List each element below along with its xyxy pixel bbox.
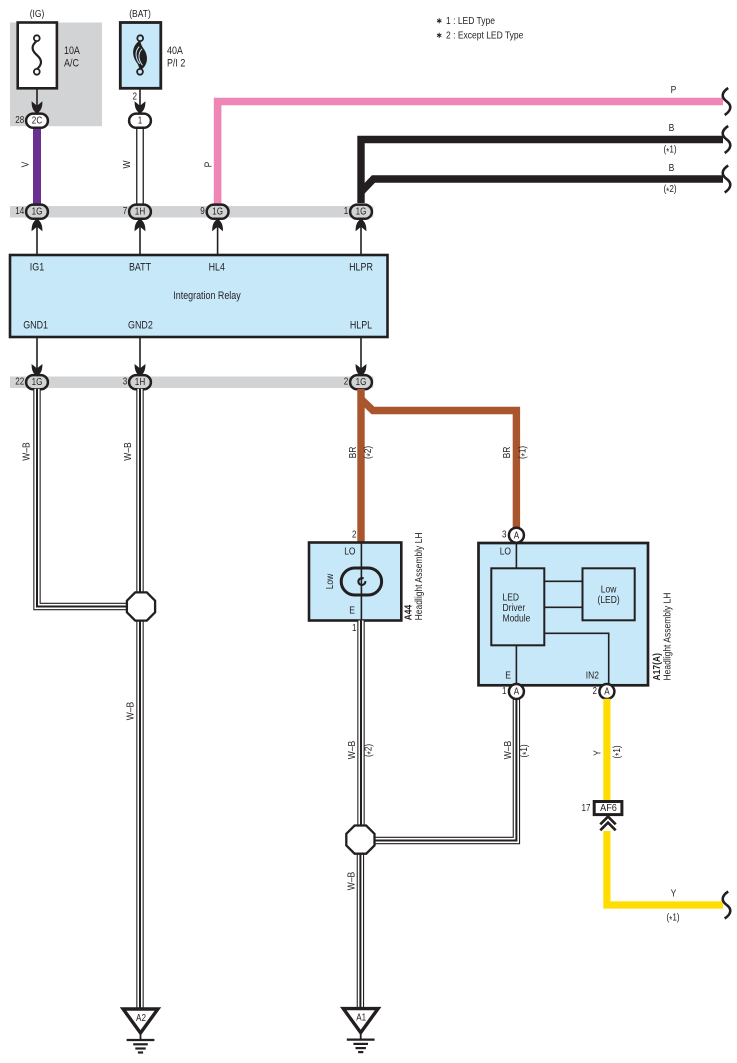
svg-text:W–B: W–B (502, 741, 514, 759)
svg-text:HLPL: HLPL (350, 320, 372, 332)
connector 9 1G (207, 205, 229, 219)
break squiggle B1 (723, 126, 731, 153)
svg-text:Low: Low (324, 573, 336, 589)
svg-text:HLPR: HLPR (349, 262, 373, 274)
svg-text:Module: Module (503, 613, 531, 625)
svg-text:W: W (121, 160, 133, 168)
lead from IG fuse (36, 88, 38, 113)
svg-text:A1: A1 (356, 1013, 366, 1024)
svg-text:Headlight Assembly LH: Headlight Assembly LH (413, 533, 425, 621)
break squiggle pink (723, 88, 731, 115)
svg-text:Headlight Assembly LH: Headlight Assembly LH (662, 593, 674, 681)
svg-text:14: 14 (15, 206, 24, 217)
svg-text:(IG): (IG) (30, 8, 45, 20)
svg-text:2: 2 (133, 92, 138, 103)
Low (LED) box (583, 568, 635, 620)
wire W-B *2: A44 pin1 down to splice J2 (357, 621, 364, 826)
svg-text:Y: Y (591, 750, 603, 756)
svg-text:P/I 2: P/I 2 (167, 57, 185, 69)
gray block behind IG fuse (10, 23, 102, 127)
arrows down into bottom bus (32, 364, 43, 376)
svg-text:40A: 40A (167, 45, 183, 57)
pin 1 connector A (509, 684, 524, 699)
LED Driver Module box (491, 568, 544, 645)
break squiggle B2 (723, 166, 731, 193)
svg-text:2 : Except LED Type: 2 : Except LED Type (446, 29, 524, 41)
svg-text:3: 3 (123, 377, 128, 388)
svg-text:V: V (20, 162, 32, 168)
legend note 1 : LED Type (437, 18, 441, 23)
wire Y: A17 pin2 down to AF6 (603, 699, 610, 802)
wire B (*1) black horizontal (361, 140, 723, 204)
pin 2 connector A (599, 684, 614, 699)
svg-text:1 : LED Type: 1 : LED Type (446, 15, 495, 27)
bulb Low (341, 568, 381, 595)
svg-text:LO: LO (500, 546, 511, 558)
svg-text:22: 22 (15, 377, 24, 388)
svg-text:1: 1 (502, 686, 507, 697)
leads relay to top bus (36, 220, 38, 256)
svg-text:10A: 10A (64, 45, 80, 57)
svg-text:Y: Y (671, 888, 677, 900)
splice octagon J2 (346, 826, 374, 854)
svg-text:17: 17 (582, 803, 591, 814)
svg-text:1G: 1G (32, 377, 43, 388)
wire W-B left: 22 1G down and right to splice (37, 389, 128, 607)
bottom bus band (10, 377, 373, 389)
svg-text:1H: 1H (135, 377, 145, 388)
svg-text:LO: LO (344, 546, 355, 558)
svg-text:E: E (349, 604, 355, 616)
svg-text:1: 1 (344, 206, 349, 217)
leads relay to bottom bus (36, 337, 38, 376)
svg-text:2: 2 (352, 530, 357, 541)
headlight A44 box (309, 543, 401, 621)
wire Y: AF6 down and right (607, 831, 723, 905)
wire BR: 2 1G down to A44 and branch to A17 (357, 389, 364, 543)
connector 22 1G (26, 375, 48, 389)
svg-text:1: 1 (352, 623, 357, 634)
pin 3 connector A (509, 528, 524, 543)
svg-text:1H: 1H (135, 207, 145, 218)
wire W-B: splice J2 down to ground A1 (357, 852, 364, 1009)
connector 2 1G (350, 375, 372, 389)
wire B (*2) black horizontal with diagonal join (362, 179, 724, 192)
svg-text:A/C: A/C (64, 57, 79, 69)
connector 17 AF6 (594, 802, 622, 815)
connector 3 1H (129, 375, 151, 389)
wire W-B *1: A17 pin1 down/left to splice J2 (375, 699, 516, 841)
svg-text:AF6: AF6 (600, 803, 617, 814)
wire V (violet) fuse IG to 1G (33, 124, 41, 207)
svg-text:(LED): (LED) (598, 594, 620, 606)
chevron marks below AF6 (600, 817, 615, 825)
svg-text:W–B: W–B (346, 872, 358, 890)
arrow into 2C (32, 101, 43, 113)
splice octagon J1 (127, 592, 155, 620)
wire W (white) fuse BAT to 1H (136, 126, 144, 207)
svg-text:(BAT): (BAT) (129, 8, 151, 20)
svg-text:1G: 1G (356, 377, 367, 388)
svg-text:BR: BR (347, 446, 359, 458)
svg-text:W–B: W–B (125, 702, 137, 720)
svg-text:P: P (671, 84, 677, 96)
svg-text:1G: 1G (32, 207, 43, 218)
internal lead (360, 543, 362, 621)
connector 1 1G (350, 205, 372, 219)
svg-text:A2: A2 (136, 1013, 146, 1024)
svg-text:2: 2 (344, 377, 349, 388)
svg-text:B: B (669, 162, 675, 174)
svg-text:3: 3 (502, 530, 507, 541)
svg-text:W–B: W–B (21, 442, 33, 460)
svg-text:IG1: IG1 (30, 262, 44, 274)
wire W-B middle: 3 1H down to ground A2 (136, 389, 143, 1009)
svg-text:1G: 1G (356, 207, 367, 218)
connector 7 1H (129, 205, 151, 219)
svg-text:Integration Relay: Integration Relay (173, 290, 241, 302)
svg-text:P: P (203, 162, 215, 168)
svg-text:9: 9 (200, 206, 205, 217)
svg-text:2: 2 (593, 686, 598, 697)
top bus band (10, 206, 373, 218)
svg-text:B: B (669, 122, 675, 134)
break squiggle yellow (723, 892, 731, 919)
svg-text:BATT: BATT (129, 262, 151, 274)
svg-text:7: 7 (123, 206, 128, 217)
headlight A17 box (479, 543, 649, 685)
svg-text:1G: 1G (212, 207, 223, 218)
ground A2 (123, 1009, 158, 1053)
svg-text:GND1: GND1 (23, 320, 48, 332)
connector 2C pin 28 (26, 114, 48, 128)
wire P (pink) horizontal + down to 9 1G (218, 102, 723, 208)
internal leads (515, 543, 517, 568)
svg-text:IN2: IN2 (586, 670, 599, 682)
arrows up into bus (32, 219, 43, 231)
svg-text:E: E (505, 670, 511, 682)
connector 1 (129, 114, 151, 128)
connector 14 1G (26, 205, 48, 219)
legend note 2 : Except LED Type (437, 33, 441, 38)
Integration Relay box (10, 255, 388, 337)
svg-text:28: 28 (15, 115, 24, 126)
arrow into 1 (135, 101, 146, 113)
svg-text:W–B: W–B (122, 442, 134, 460)
svg-text:W–B: W–B (346, 741, 358, 759)
svg-text:GND2: GND2 (128, 320, 153, 332)
svg-text:2C: 2C (32, 116, 42, 127)
svg-text:HL4: HL4 (209, 262, 225, 274)
svg-text:BR: BR (501, 446, 513, 458)
svg-text:1: 1 (138, 116, 143, 127)
ground A1 (343, 1009, 378, 1053)
lead from BAT fuse (139, 88, 141, 113)
